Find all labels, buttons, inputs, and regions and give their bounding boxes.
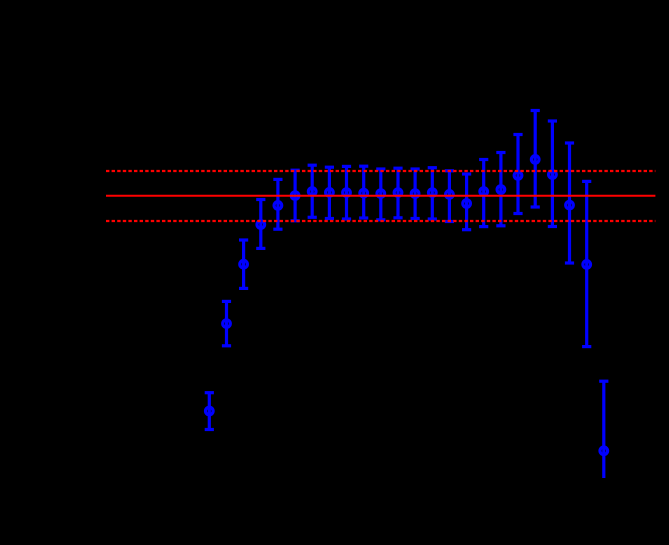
data point 20 with error bar — [531, 111, 540, 208]
lower error dashed red line — [106, 220, 655, 222]
data point 6 with error bar — [291, 170, 300, 221]
data point 13 with error bar — [411, 169, 420, 219]
data point 14 with error bar — [428, 168, 437, 219]
data point 8 with error bar — [325, 167, 334, 218]
data point 19 with error bar — [513, 135, 522, 214]
data point 18 with error bar — [496, 153, 505, 226]
data point 2 with error bar — [222, 301, 231, 345]
data point 15 with error bar — [445, 171, 454, 222]
data point 17 with error bar — [479, 160, 488, 227]
data point 3 with error bar — [239, 240, 248, 288]
data point 7 with error bar — [308, 165, 317, 217]
upper error dashed red line — [106, 170, 655, 172]
data point 12 with error bar — [393, 168, 402, 218]
data point 5 with error bar — [273, 179, 282, 229]
data point 4 with error bar — [256, 200, 265, 249]
fit value solid red line — [106, 195, 655, 197]
data point 16 with error bar — [462, 174, 471, 230]
data point 22 with error bar — [565, 143, 574, 263]
data point 21 with error bar — [548, 121, 557, 227]
data point 1 with error bar — [205, 393, 214, 430]
data point 24 with error bar — [599, 381, 608, 478]
data point 10 with error bar — [359, 166, 368, 218]
data point 11 with error bar — [376, 169, 385, 220]
data point 9 with error bar — [342, 166, 351, 219]
data point 23 with error bar — [582, 181, 591, 346]
